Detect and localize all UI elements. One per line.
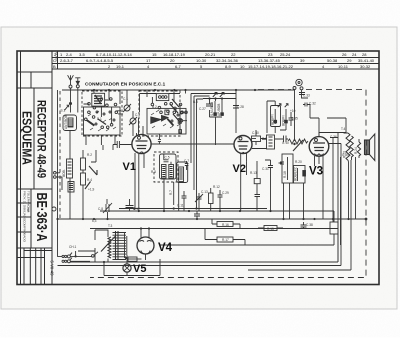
svg-text:19-1: 19-1	[116, 64, 125, 69]
svg-text:C: C	[53, 58, 56, 63]
svg-text:C.33: C.33	[303, 94, 310, 98]
svg-text:V1: V1	[123, 161, 136, 173]
svg-text:23: 23	[268, 52, 273, 57]
svg-text:AP./BOB: AP./BOB	[217, 104, 221, 116]
svg-text:T.3: T.3	[108, 224, 112, 228]
svg-text:17: 17	[146, 58, 151, 63]
svg-text:R.2: R.2	[87, 153, 92, 157]
svg-text:R.7: R.7	[169, 190, 173, 195]
svg-text:+10: +10	[290, 109, 296, 113]
svg-text:C.32: C.32	[309, 102, 316, 106]
svg-text:BOB.: BOB.	[62, 169, 66, 177]
svg-text:6-7-8-10-11-12-9-14: 6-7-8-10-11-12-9-14	[96, 52, 132, 57]
svg-text:R.5: R.5	[151, 170, 156, 174]
svg-text:29: 29	[347, 58, 352, 63]
svg-text:B.1: B.1	[97, 117, 102, 121]
svg-text:BOB/FI: BOB/FI	[281, 115, 285, 126]
svg-text:C.38: C.38	[306, 223, 313, 227]
svg-text:C.10: C.10	[282, 141, 289, 145]
svg-text:C.17: C.17	[133, 207, 140, 211]
svg-text:C.39: C.39	[342, 153, 349, 157]
svg-text:39: 39	[300, 58, 305, 63]
svg-text:20-21: 20-21	[205, 52, 216, 57]
svg-text:10-11: 10-11	[338, 64, 349, 69]
svg-text:C.5: C.5	[165, 156, 170, 160]
svg-text:B.2: B.2	[152, 105, 157, 109]
svg-text:R.24: R.24	[354, 147, 358, 154]
svg-text:ANT/BOB: ANT/BOB	[64, 115, 68, 129]
svg-text:5-VII-49: 5-VII-49	[49, 261, 54, 277]
svg-text:S.M./BOB: S.M./BOB	[210, 102, 214, 116]
svg-text:26: 26	[342, 52, 347, 57]
svg-text:C.29: C.29	[222, 191, 229, 195]
svg-text:R.16: R.16	[222, 223, 229, 227]
svg-text:V3: V3	[309, 166, 323, 178]
svg-text:6-7: 6-7	[175, 64, 182, 69]
svg-text:15-17-14-19-18-16-21-22: 15-17-14-19-18-16-21-22	[248, 64, 294, 69]
svg-text:2-6-3-7: 2-6-3-7	[60, 58, 74, 63]
svg-text:B.3: B.3	[193, 100, 198, 104]
svg-text:30-32: 30-32	[360, 64, 371, 69]
svg-text:R.9: R.9	[262, 137, 267, 141]
svg-text:6-9-7-4-4-8-5-5: 6-9-7-4-4-8-5-5	[86, 58, 114, 63]
svg-text:R.12: R.12	[213, 185, 220, 189]
svg-text:C.28: C.28	[237, 105, 244, 109]
svg-text:R.4: R.4	[87, 178, 92, 182]
svg-text:S.1: S.1	[61, 109, 66, 113]
svg-text:10: 10	[240, 64, 245, 69]
svg-text:22: 22	[231, 52, 236, 57]
svg-text:COMPROBADO: COMPROBADO	[23, 220, 27, 243]
svg-text:V4: V4	[158, 242, 173, 254]
svg-text:B: B	[53, 64, 56, 69]
svg-text:Agh: Agh	[27, 207, 31, 213]
svg-text:BOB/EXC: BOB/EXC	[294, 166, 298, 181]
svg-text:C.8: C.8	[98, 207, 103, 211]
svg-text:2-4: 2-4	[66, 52, 73, 57]
svg-text:32-34-34-36: 32-34-34-36	[216, 58, 239, 63]
svg-text:C.3: C.3	[135, 113, 140, 117]
svg-text:C.13: C.13	[201, 190, 208, 194]
svg-text:BOB/FI: BOB/FI	[271, 114, 275, 125]
svg-text:R.15: R.15	[267, 227, 274, 231]
svg-text:C.31: C.31	[262, 167, 269, 171]
svg-text:C.30: C.30	[252, 131, 259, 135]
svg-text:T.4: T.4	[341, 127, 345, 131]
svg-text:C.11: C.11	[177, 204, 184, 208]
svg-text:15: 15	[152, 52, 157, 57]
svg-text:C.27: C.27	[199, 107, 206, 111]
svg-text:C.35: C.35	[291, 117, 298, 121]
svg-text:13-36-37-45: 13-36-37-45	[258, 58, 281, 63]
svg-text:8-9: 8-9	[225, 64, 232, 69]
svg-text:24: 24	[352, 52, 357, 57]
svg-text:PROY. 21: PROY. 21	[23, 191, 27, 204]
svg-text:ESQUEMA: ESQUEMA	[20, 111, 35, 165]
svg-text:V5: V5	[133, 263, 146, 275]
svg-text:DIBUJADO: DIBUJADO	[23, 205, 27, 221]
svg-text:3-5: 3-5	[79, 52, 86, 57]
svg-text:R.18: R.18	[283, 171, 287, 178]
svg-text:C.7: C.7	[184, 159, 189, 163]
svg-text:50-38: 50-38	[327, 58, 338, 63]
svg-text:28: 28	[362, 52, 367, 57]
svg-text:R.20: R.20	[295, 160, 302, 164]
svg-text:25-24: 25-24	[280, 52, 291, 57]
svg-text:BE·363·A: BE·363·A	[33, 193, 49, 242]
svg-text:20: 20	[170, 58, 175, 63]
svg-text:C.1: C.1	[123, 97, 128, 101]
svg-text:CH.1: CH.1	[69, 245, 76, 249]
svg-text:10-30: 10-30	[196, 58, 207, 63]
svg-text:C.36: C.36	[330, 135, 337, 139]
svg-text:R.17: R.17	[222, 238, 229, 242]
svg-text:CONMUTADOR EN POSICION E.C.1: CONMUTADOR EN POSICION E.C.1	[85, 81, 166, 86]
svg-text:V2: V2	[233, 163, 246, 175]
svg-text:+1,9: +1,9	[88, 188, 95, 192]
svg-text:R.13: R.13	[250, 171, 257, 175]
svg-text:35-41-40: 35-41-40	[358, 58, 375, 63]
svg-text:16-18-17-19: 16-18-17-19	[163, 52, 186, 57]
svg-text:RECEPTOR 48-49: RECEPTOR 48-49	[35, 100, 49, 178]
svg-text:6,3: 6,3	[92, 219, 97, 223]
